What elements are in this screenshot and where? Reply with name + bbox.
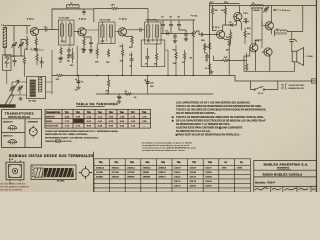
capacitor C2 <box>13 58 16 64</box>
wire C13 <box>147 76 149 95</box>
svg-text:OT7001: OT7001 <box>96 172 104 174</box>
svg-text:2SB56.8: 2SB56.8 <box>158 167 167 169</box>
transistor TR4 <box>217 30 225 38</box>
AGC line above detector <box>148 20 195 22</box>
svg-text:C38.77: C38.77 <box>205 167 212 169</box>
svg-text:INSTRUMENTO USADO: VOLTIMETRO: INSTRUMENTO USADO: VOLTIMETRO 20.000 Ω/V… <box>45 137 100 140</box>
resistor R22 mid <box>183 52 185 60</box>
tuning gang capacitor C1A <box>11 42 16 48</box>
ground under C7 <box>89 49 93 52</box>
svg-text:C38.73: C38.73 <box>174 181 181 183</box>
svg-text:C38.91: C38.91 <box>174 172 181 174</box>
svg-text:2SA53.2: 2SA53.2 <box>127 166 136 169</box>
capacitor C17 <box>169 22 172 28</box>
T4 leads <box>147 20 157 44</box>
title underline <box>76 105 105 107</box>
wire C8 <box>77 76 79 79</box>
T2 leads <box>86 22 118 44</box>
antenna coil dark winding <box>44 168 74 177</box>
resistor R13 in box <box>121 49 123 57</box>
wire R4b <box>71 48 73 63</box>
speaker LS1 <box>292 48 303 66</box>
capacitor C11 <box>130 57 133 63</box>
svg-text:P1 VOL: P1 VOL <box>191 15 199 17</box>
svg-text:AJUSTAR ESTE PARA OBTENER EN Ⓡ: AJUSTAR ESTE PARA OBTENER EN Ⓡ UNA CORRI… <box>176 126 243 130</box>
paper background <box>0 0 320 192</box>
svg-text:MEDICIONES DE TIPO: SEÑAL CONT: MEDICIONES DE TIPO: SEÑAL CONTINUA.- <box>45 133 88 136</box>
ground C8 <box>77 86 81 89</box>
T1 primary winding <box>60 24 63 36</box>
svg-text:T2 OT-1008: T2 OT-1008 <box>100 20 112 22</box>
svg-text:TR5: TR5 <box>243 13 249 15</box>
svg-text:10K: 10K <box>224 57 228 59</box>
svg-text:BOBINAS VISTAS DESDE SUS TERMI: BOBINAS VISTAS DESDE SUS TERMINALES <box>9 154 94 158</box>
horizontal resistor R25 <box>222 59 230 61</box>
svg-text:C38.75: C38.75 <box>190 181 197 183</box>
wires rail resistors <box>212 6 225 31</box>
resistor R14 in box <box>155 53 157 61</box>
svg-text:2SB088: 2SB088 <box>143 176 151 178</box>
resistor R7b under T2 <box>107 49 109 57</box>
svg-text:BT-7001 BLANCO/NEGRA: BT-7001 BLANCO/NEGRA <box>1 183 26 186</box>
bus feed resistor R6 <box>56 74 64 76</box>
oscillator padder box <box>3 55 11 71</box>
wires R16 C14 <box>205 51 207 62</box>
svg-text:OT7003: OT7003 <box>127 172 135 174</box>
T5 lead wires <box>251 6 264 49</box>
antenna coil light winding <box>34 168 43 177</box>
svg-text:2SA52 R.F.: 2SA52 R.F. <box>3 120 13 123</box>
resistor R16 <box>203 43 205 51</box>
signature scribbles <box>255 188 315 190</box>
earphone jack J1 <box>290 39 297 44</box>
resistor R5b under TR2 <box>96 48 98 56</box>
lower supply line <box>213 76 316 90</box>
oscillator resistor R10 <box>36 54 38 62</box>
parts table grid <box>94 159 250 192</box>
svg-text:TODAS LAS TENSIONES ESTAN DADA: TODAS LAS TENSIONES ESTAN DADAS EN VOLT … <box>45 130 119 133</box>
svg-text:C38.95: C38.95 <box>190 172 197 174</box>
speaker return wire <box>244 48 295 72</box>
ground near bus x211 <box>209 70 213 73</box>
svg-text:NO MED: NO MED <box>76 121 85 123</box>
filter capacitor C20 <box>184 32 187 38</box>
electrolytic capacitor C13 <box>145 79 150 86</box>
tuning gang trimmer C2B <box>17 86 22 92</box>
winding terminal numbers <box>32 166 33 178</box>
svg-text:DE MICROFARADIOS Y LA TENSION: DE MICROFARADIOS Y LA TENSION EN VOLT.- <box>176 123 231 126</box>
T1 secondary return wire <box>76 46 78 76</box>
svg-text:C38.97: C38.97 <box>205 185 212 187</box>
svg-text:2SB75 A.F.: 2SB75 A.F. <box>3 134 13 137</box>
capacitor C18 <box>177 22 180 28</box>
rail resistor R7 <box>111 7 119 9</box>
detector line wires <box>161 28 193 34</box>
detector filter box <box>141 40 165 67</box>
svg-text:TRANSISTOR: TRANSISTOR <box>46 111 61 114</box>
wire R22 <box>184 50 186 76</box>
svg-text:SALVO INDICACION EN CONTRA.-: SALVO INDICACION EN CONTRA.- <box>176 112 216 115</box>
wire gang bottoms <box>14 40 26 57</box>
thermistor diode D2 <box>229 24 235 27</box>
svg-text:2SA082: 2SA082 <box>112 175 120 178</box>
T1 tuning capacitor <box>61 21 70 46</box>
B+ top rail <box>210 4 317 6</box>
svg-text:MIGNON DE 1.5V: MIGNON DE 1.5V <box>289 88 305 90</box>
transistor TR1 <box>30 27 38 35</box>
bypass capacitor C6 on rail <box>83 12 86 16</box>
coupling capacitor C9 <box>138 28 144 31</box>
pinout symbol RF <box>8 126 17 131</box>
black reference bar <box>0 104 16 107</box>
svg-text:COLECTOR: COLECTOR <box>46 126 59 128</box>
volume potentiometer P1 <box>192 30 194 38</box>
wire jack to speaker <box>291 44 293 51</box>
svg-text:C38.99: C38.99 <box>205 176 212 178</box>
electrolytic capacitor C8 <box>75 79 80 86</box>
svg-text:S1-LL: S1-LL <box>258 93 264 95</box>
driver transformer T5 <box>251 5 264 9</box>
svg-text:TR2: TR2 <box>79 17 87 21</box>
svg-text:10K: 10K <box>95 62 99 64</box>
svg-text:C38.70: C38.70 <box>174 185 181 187</box>
svg-text:BT-7003 ROJO/NEGRO: BT-7003 ROJO/NEGRO <box>1 190 23 192</box>
IF transformer T4 <box>145 22 161 44</box>
TRANSISTORES pinout box <box>2 110 42 148</box>
pinout symbol AF <box>8 140 17 145</box>
wire to TR4 base <box>205 34 217 36</box>
red ownership note above parts table <box>142 142 197 152</box>
svg-text:C38.96: C38.96 <box>205 172 212 174</box>
svg-text:BT-1026: BT-1026 <box>57 180 64 182</box>
T4 primary winding <box>147 25 150 37</box>
svg-text:47K: 47K <box>204 46 208 49</box>
output transformer T7 <box>274 30 287 34</box>
svg-text:BT-1023: BT-1023 <box>29 100 38 102</box>
transistor TR3 <box>118 28 126 36</box>
IF transformer T2 <box>99 22 115 44</box>
svg-text:EMISOR: EMISOR <box>46 116 55 118</box>
oscillator capacitor C3 <box>40 59 43 65</box>
svg-text:2SB083: 2SB083 <box>127 176 135 178</box>
svg-text:6 5 4: 6 5 4 <box>9 158 13 161</box>
svg-text:C38.47: C38.47 <box>174 175 181 178</box>
wires bias <box>231 28 245 44</box>
interstage coupling capacitor C15 <box>243 20 249 23</box>
TR2 emitter resistor R5 <box>83 38 85 46</box>
svg-text:2SB88: 2SB88 <box>143 172 150 174</box>
battery brace <box>285 83 286 89</box>
wire R11 <box>108 76 110 95</box>
svg-text:2SB173: 2SB173 <box>158 172 166 174</box>
wire R5b <box>96 44 98 59</box>
title block outline <box>254 160 317 192</box>
wires R15 <box>175 45 177 76</box>
signature row dividers <box>271 186 311 192</box>
wires TR1 bias <box>27 26 36 49</box>
resistor R24 on feed line <box>208 63 210 71</box>
svg-text:TODOS LOS VALORES DE RESISTENC: TODOS LOS VALORES DE RESISTENCIA ESTAN E… <box>176 105 262 108</box>
TR5 collector to rail <box>240 6 242 31</box>
T2 secondary winding <box>109 25 112 37</box>
voltage table row COLECTOR <box>46 125 145 128</box>
coupling capacitor C4 <box>43 28 49 31</box>
parts table row2 <box>96 172 213 174</box>
ground under TR2 parts <box>82 48 86 51</box>
svg-text:GERMANIO: GERMANIO <box>28 120 39 123</box>
bias resistor R20 <box>244 30 246 38</box>
oscillator coil bottom view square <box>6 160 24 181</box>
svg-text:2: 2 <box>32 170 33 172</box>
svg-text:TR1: TR1 <box>27 17 35 21</box>
wires TR4 <box>223 25 230 76</box>
wire antenna to TR1 base <box>5 26 30 57</box>
variable capacitor C23 at rail <box>263 7 268 13</box>
svg-text:T1 OT-1007: T1 OT-1007 <box>59 18 71 20</box>
tone note arrow <box>273 9 279 11</box>
transistor TR2 <box>78 28 86 36</box>
wires oscillator top <box>7 48 44 84</box>
voltage table header row <box>46 111 147 114</box>
svg-text:C38.93: C38.93 <box>205 181 212 183</box>
main ground bus <box>68 4 213 95</box>
svg-text:4: 4 <box>32 175 33 178</box>
ground C19 <box>173 40 177 43</box>
ground under C5 <box>67 54 71 57</box>
power switch S1 <box>254 81 278 90</box>
parts table header <box>99 161 244 164</box>
voltage table tint <box>45 109 151 128</box>
svg-text:1: 1 <box>32 166 33 168</box>
IF supply rail <box>94 9 148 22</box>
wire TR1 collector to T1 <box>39 9 62 30</box>
note4 box symbol <box>56 139 60 142</box>
IF transformer T1 <box>58 20 74 45</box>
transistor TR8 <box>265 22 273 30</box>
detector diode D1 <box>165 32 171 35</box>
gang arrow frame <box>4 96 13 106</box>
svg-text:T. 22-4 mc.: T. 22-4 mc. <box>280 9 291 12</box>
resistor R3 below T1 <box>60 47 62 55</box>
TR1 emitter resistor R2 <box>35 38 37 46</box>
svg-text:2SA53.1: 2SA53.1 <box>112 166 121 169</box>
svg-text:10K: 10K <box>154 63 158 65</box>
svg-text:en libertad de introducir modi: en libertad de introducir modificaciones… <box>142 149 186 152</box>
wire TR3 collector <box>127 29 145 31</box>
TR3 emitter resistor R8 <box>131 36 133 44</box>
voltage table dark cell <box>73 119 83 123</box>
svg-text:--: -- <box>143 126 145 128</box>
TR2 emitter capacitor C7 <box>89 40 92 46</box>
rail resistor R17 <box>211 7 213 15</box>
oscillator resistor R9 <box>23 57 25 65</box>
T7 core leads <box>274 6 302 39</box>
svg-text:PILAS CHIC.TIPO: PILAS CHIC.TIPO <box>289 84 305 87</box>
svg-text:C38.67: C38.67 <box>190 185 197 187</box>
gang mechanical link arrow <box>4 80 19 106</box>
svg-text:NOBLEX ARGENTINA S.A.: NOBLEX ARGENTINA S.A. <box>264 162 309 166</box>
svg-text:BT-7002 AMARILLO/MARRON: BT-7002 AMARILLO/MARRON <box>1 186 30 189</box>
wire R6 <box>52 75 68 77</box>
voltage table grid <box>45 109 151 128</box>
svg-text:VISTOS DE ABAJO: VISTOS DE ABAJO <box>8 116 30 119</box>
transistor TR6 <box>250 44 258 52</box>
rail resistor R18 <box>224 7 226 15</box>
T4 secondary winding <box>155 25 158 37</box>
T1 secondary winding <box>69 24 72 36</box>
parts table left panel line <box>93 152 95 192</box>
capacitor C12 in box <box>146 55 149 61</box>
P1 wiper arrow <box>193 20 199 76</box>
wire T1 to TR2 <box>74 31 78 33</box>
page frame right border <box>315 0 317 192</box>
pinout circle symbol <box>29 125 37 137</box>
ground C20 <box>184 38 188 41</box>
choke coil L2 above T1 <box>66 4 79 8</box>
parts table row5 <box>174 185 213 187</box>
battery tick marks <box>282 84 283 89</box>
svg-text:⊗: ⊗ <box>172 120 174 123</box>
svg-text:BASE: BASE <box>46 120 53 123</box>
coupling capacitor C21 <box>199 33 205 36</box>
oscillator coil T6 box <box>27 77 46 99</box>
svg-text:C38.79: C38.79 <box>190 176 197 178</box>
svg-text:1 OHM: 1 OHM <box>306 56 313 58</box>
fuse box on supply line <box>312 79 317 83</box>
AGC rail to TR2 <box>52 9 94 22</box>
T2 primary winding <box>101 25 104 37</box>
T6 primary winding dark <box>30 80 36 97</box>
capacitor C14 <box>205 54 208 60</box>
ferrite antenna coil L1 <box>3 28 6 48</box>
wire R26 <box>246 61 248 71</box>
resistor R11 on bus <box>107 79 109 87</box>
L2 leads <box>62 6 84 9</box>
parts table row4 <box>174 181 213 183</box>
voltage table row BASE <box>46 120 147 123</box>
svg-text:TABLA DE TENSIONES: TABLA DE TENSIONES <box>76 102 118 106</box>
svg-text:OT7002: OT7002 <box>112 172 120 174</box>
svg-text:LOS CAPACITORES C4-C6 Y C10 VA: LOS CAPACITORES C4-C6 Y C10 VAN DENTRO D… <box>176 101 251 104</box>
capacitor C5 below T1 <box>67 48 70 54</box>
svg-text:C38.78: C38.78 <box>174 167 181 169</box>
capacitor C22 on lower bus <box>117 94 120 100</box>
svg-text:2SA087: 2SA087 <box>96 175 104 178</box>
ground C22 <box>117 100 121 103</box>
svg-text:◆PARA ESTE VALOR DE RESISTENCI: ◆PARA ESTE VALOR DE RESISTENCIA EN PARAL… <box>174 133 240 136</box>
transistor TR7 <box>264 48 272 56</box>
svg-text:2SB173: 2SB173 <box>158 176 166 178</box>
T6 secondary winding <box>39 77 42 91</box>
svg-text:3: 3 <box>32 173 33 175</box>
ground under R2 TR1 <box>34 48 38 51</box>
wires output pair <box>250 6 272 72</box>
wires oscillator bottom <box>12 50 52 95</box>
svg-text:RADIO NOBLEX CAROLA: RADIO NOBLEX CAROLA <box>263 173 303 177</box>
voltage table row EMISOR <box>46 115 147 118</box>
wires TR3 emitter <box>124 35 132 47</box>
T5 center tap grounds <box>254 9 260 11</box>
bias line to output pair <box>214 53 247 61</box>
filter capacitor C19 <box>173 34 176 40</box>
svg-text:TR3: TR3 <box>119 17 127 21</box>
svg-text:TODOS LOS RESISTORES/ELEM. IND: TODOS LOS RESISTORES/ELEM. INDICADOS DE … <box>176 116 264 119</box>
resistor R26 <box>245 63 247 71</box>
svg-text:DE LOS CAPACITORES ELECTROLITI: DE LOS CAPACITORES ELECTROLITICOS SE IND… <box>176 119 266 122</box>
parts table row1 <box>96 166 243 169</box>
junction dots on bus <box>77 75 194 76</box>
department underline <box>277 168 291 170</box>
svg-text:C38.87: C38.87 <box>190 167 197 169</box>
TR1 base bias resistor R1 <box>26 38 28 46</box>
svg-text:Modelo: 7N2-P: Modelo: 7N2-P <box>255 180 275 184</box>
capacitor C16 <box>161 22 164 28</box>
resistor R4b under T1 <box>71 52 73 60</box>
IF can bottom view circle <box>79 166 92 179</box>
transistor TR5 <box>234 13 242 21</box>
wires filter area <box>123 44 168 76</box>
svg-text:10K: 10K <box>214 10 218 12</box>
wire D2 to TR5 base <box>234 21 237 25</box>
bias resistor R21 <box>229 32 231 40</box>
svg-text:56K: 56K <box>25 49 29 51</box>
svg-text:2SB54.3: 2SB54.3 <box>143 166 152 169</box>
svg-text:TODOS LOS VALORES DE CAPACIDAD: TODOS LOS VALORES DE CAPACIDAD ESTAN DAD… <box>176 109 266 112</box>
horizontal resistor R12 on lower bus <box>124 93 132 95</box>
ground mark left <box>19 97 23 100</box>
wires TR2 emitter <box>84 36 91 48</box>
ground under T1 parts <box>59 57 63 60</box>
svg-text:2SA52.A: 2SA52.A <box>96 166 105 169</box>
antenna coil winding view box <box>31 165 76 180</box>
resistor R23 on feed line <box>208 42 210 50</box>
tuning gang trimmer C2A <box>9 86 14 92</box>
AGC resistor R15 <box>175 52 177 60</box>
svg-text:TR4: TR4 <box>213 25 220 29</box>
TR4 emitter resistor R19 <box>228 39 230 47</box>
tuning gang capacitor C1B <box>18 42 23 48</box>
parts table row3 <box>96 175 213 178</box>
